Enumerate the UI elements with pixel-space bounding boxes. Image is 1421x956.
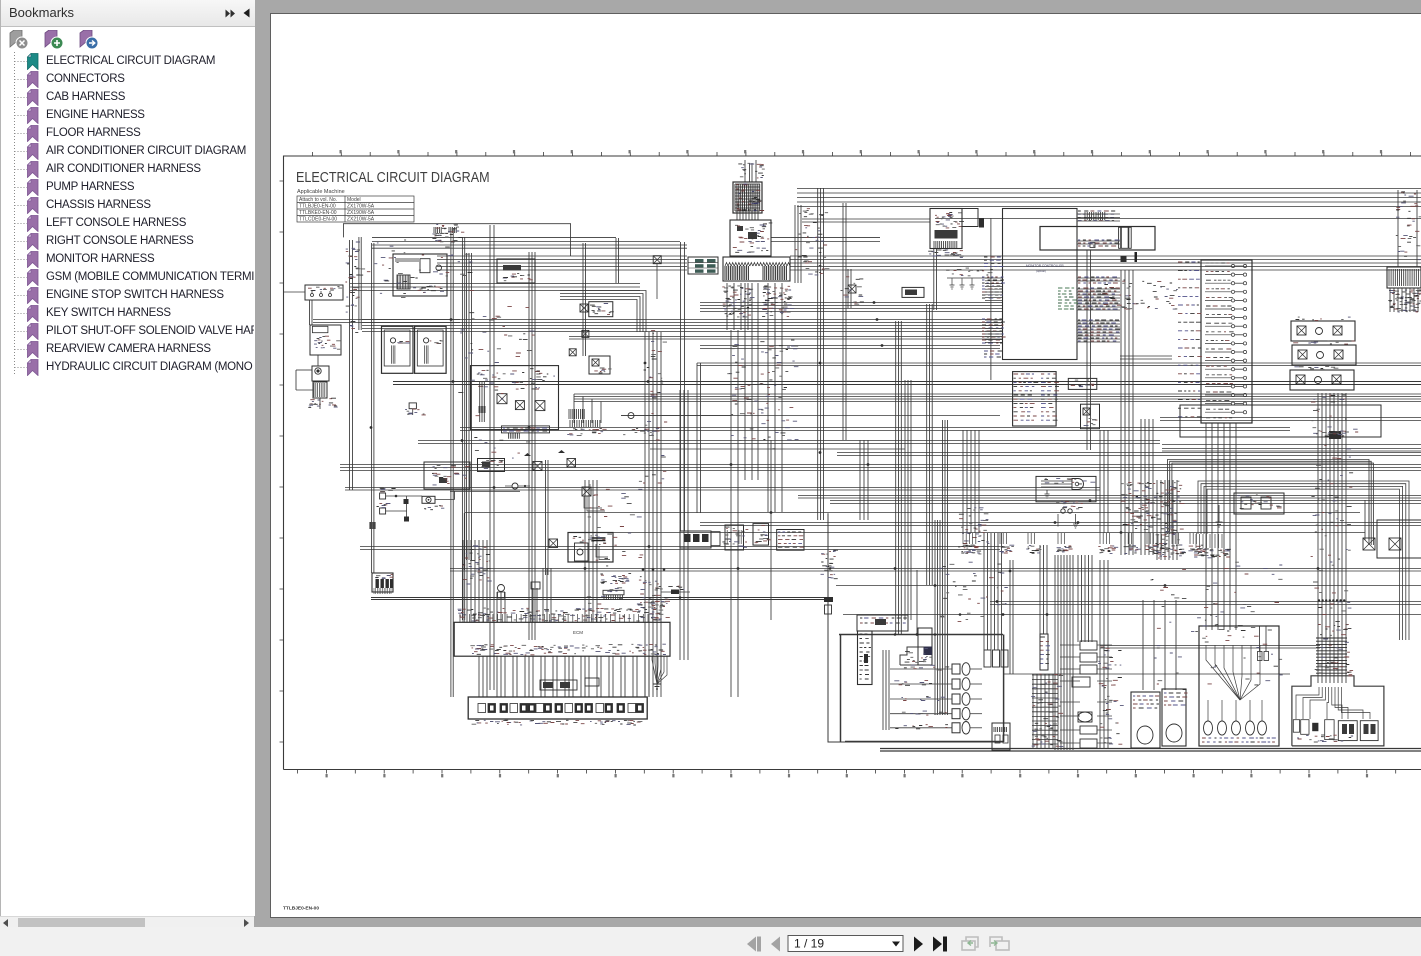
ruler numerals xyxy=(326,774,328,777)
fan symbol xyxy=(628,413,634,419)
wire bus mid xyxy=(313,320,460,323)
ladder rungs right bundle xyxy=(1316,638,1347,673)
vertical small groups xyxy=(860,440,868,520)
solenoid SV4 xyxy=(952,709,960,719)
solenoid SV2 xyxy=(952,679,960,689)
ECM bottom stubs and bundles xyxy=(479,656,649,697)
small relay cluster mid-right xyxy=(848,285,856,293)
ruler tick marks xyxy=(280,152,1411,774)
left of fusebox specks xyxy=(1102,281,1174,309)
fuel sensor box xyxy=(478,459,505,472)
relay bank cluster xyxy=(680,531,711,548)
wire routing upper-left xyxy=(343,223,571,225)
svg-text:TTLBJE0-EN-00: TTLBJE0-EN-00 xyxy=(283,906,319,912)
fuse row 5 xyxy=(1231,299,1234,302)
fuse row 7 xyxy=(1231,316,1234,319)
wire pair xyxy=(418,441,1160,444)
narrow tall box xyxy=(1040,634,1048,670)
wire pair mid3 xyxy=(700,346,1000,349)
green pin text rows xyxy=(1058,288,1078,309)
vertical single xyxy=(990,218,992,380)
dark connector stack right xyxy=(824,597,833,602)
label strip xyxy=(502,426,550,433)
ECM top pin stubs xyxy=(460,614,653,622)
ECM right fan wires xyxy=(652,656,657,684)
radio box xyxy=(393,254,447,296)
travel alarm box xyxy=(1131,692,1160,748)
vertical group right-mid xyxy=(1040,545,1047,634)
pump group label box xyxy=(857,615,908,631)
diode ladder bundle xyxy=(1033,674,1053,748)
battery wire specks xyxy=(953,251,963,253)
vertical to ECM xyxy=(585,480,597,622)
relay logic box right-mid xyxy=(1180,405,1381,437)
relay box 2 xyxy=(1292,345,1356,365)
wire bundle lower mid xyxy=(574,394,1421,402)
vertical group far right upper xyxy=(1121,270,1133,555)
fuse row 6 xyxy=(1231,307,1234,310)
fuse row 11 xyxy=(1231,350,1234,353)
wire bus center xyxy=(697,363,1421,366)
junction box above xyxy=(424,462,470,489)
corner verticals upper xyxy=(616,238,619,283)
wire pair mid2 xyxy=(569,337,1002,340)
connector comb teeth left xyxy=(725,266,748,280)
relay K3 xyxy=(535,401,545,411)
vertical pair mid xyxy=(546,460,549,575)
small motor symbol xyxy=(512,483,518,489)
solenoid SV3 xyxy=(952,694,960,704)
lower-left hatch box xyxy=(313,382,327,398)
solenoid SV5 xyxy=(952,723,960,733)
relay K2 xyxy=(515,401,524,410)
connector pair above pilot box xyxy=(1258,652,1263,661)
radio inner box xyxy=(420,259,430,273)
option box right xyxy=(1068,378,1097,389)
wire bundle with corners xyxy=(560,291,646,333)
antenna box xyxy=(1036,476,1096,501)
svg-text:Attach to vol. No.: Attach to vol. No. xyxy=(299,197,337,203)
monitor pin stubs xyxy=(1077,213,1120,215)
wire pair box top xyxy=(798,496,1421,499)
wire pair below xyxy=(1162,444,1421,446)
fuse row 13 xyxy=(1231,368,1234,371)
vertical bundle to pump box xyxy=(935,520,948,715)
relay K1 xyxy=(497,394,507,404)
wire pair right2 xyxy=(700,523,1421,526)
vertical bundle right-mid upper xyxy=(963,430,979,533)
fan tree wires xyxy=(1206,645,1240,700)
switch SW2 xyxy=(380,508,386,514)
connector labels below xyxy=(477,720,640,724)
pilot box connectors xyxy=(1293,720,1299,733)
connector dangles on long wire xyxy=(962,533,964,544)
svg-text:TTLCDE0-EN-00: TTLCDE0-EN-00 xyxy=(299,217,337,223)
pump box bottom bold wire xyxy=(845,741,1003,743)
wire bus main top xyxy=(437,256,687,270)
mid small boxes between ECM and connectors xyxy=(540,680,577,690)
wire bus bottom main xyxy=(450,569,1421,572)
bold bottom right wire xyxy=(880,749,1421,752)
vertical bundle mid xyxy=(645,332,661,697)
wire bus upper-left xyxy=(372,236,616,238)
U-bundle wires 2 xyxy=(1198,481,1409,640)
vertical shorts xyxy=(848,269,851,308)
sub-box in option box xyxy=(1119,227,1132,248)
bookmark toolbar icons xyxy=(9,30,119,50)
fusible link box xyxy=(962,209,978,227)
vertical dense bundle right xyxy=(1055,555,1073,750)
monitor left pin labels xyxy=(990,256,994,258)
bold wire pair lower-left xyxy=(371,598,832,600)
svg-text:Model: Model xyxy=(347,197,361,203)
vertical far right top xyxy=(1398,190,1417,267)
wire segment xyxy=(1003,673,1290,675)
wire single right xyxy=(613,532,1365,534)
relay far right 2 xyxy=(1389,538,1401,550)
fuse row 16 xyxy=(1231,393,1234,396)
vertical pair monitor right xyxy=(1087,250,1091,450)
schematic border frame xyxy=(284,156,1421,770)
ECM engine control module xyxy=(454,622,670,656)
bottom toolbar xyxy=(0,927,1421,956)
wire pair xyxy=(460,428,1290,431)
wire pair fusebox left xyxy=(1120,356,1172,359)
svg-text:ZX190W-5A: ZX190W-5A xyxy=(347,210,375,216)
fuse row 15 xyxy=(1231,385,1234,388)
corner wires down xyxy=(573,394,575,423)
relay K6 xyxy=(582,487,591,496)
small box under xyxy=(409,403,416,409)
wire right xyxy=(1100,646,1320,649)
relay R4 xyxy=(653,256,661,264)
pump bottom box xyxy=(992,723,1010,750)
fuse row 14 xyxy=(1231,376,1234,379)
dark connector marks xyxy=(1135,252,1138,262)
lower-left component small xyxy=(312,366,329,381)
wire long right xyxy=(935,218,1421,220)
wire single bottom right xyxy=(836,585,1421,587)
wide option box xyxy=(1040,227,1155,251)
tiny connector marks above frame entry xyxy=(434,227,441,233)
24V resistor tall box xyxy=(858,631,873,685)
fuse row 9 xyxy=(1231,333,1234,336)
vertical wires left xyxy=(350,240,353,490)
wire pair bottom right xyxy=(990,602,1421,605)
flasher unit box xyxy=(568,533,613,563)
wire drop from bus to ECM area xyxy=(463,513,465,570)
connector comb teeth right xyxy=(763,266,786,280)
wire single long xyxy=(465,512,1360,514)
fuse row 8 xyxy=(1231,325,1234,328)
fuse row 3 xyxy=(1231,282,1234,285)
svg-text:TTLBJE0-EN-00: TTLBJE0-EN-00 xyxy=(299,204,336,210)
ground fan cluster xyxy=(947,277,992,279)
switch SW1 xyxy=(380,493,386,499)
wire bus upper-left right segment xyxy=(771,237,880,241)
relay box 3 xyxy=(1290,370,1354,390)
right edge connector comb xyxy=(1387,267,1421,288)
document pane background xyxy=(254,0,1421,927)
tiny connector on wire xyxy=(370,522,376,529)
relay far right 1 xyxy=(1363,538,1375,550)
bank teeth row xyxy=(725,263,790,267)
wire pair right-mid xyxy=(1162,449,1421,452)
rearview camera box xyxy=(1234,493,1284,514)
right mid specks field xyxy=(1121,482,1185,530)
wire bus dark pair xyxy=(393,382,1421,385)
wire long bottom xyxy=(843,614,1421,616)
pump feed bundle xyxy=(883,650,889,730)
specks near top right verticals xyxy=(1396,192,1419,252)
horn box xyxy=(305,285,343,300)
cab harness junction box xyxy=(471,366,559,430)
ECM top pin specks xyxy=(459,608,659,620)
vertical pair xyxy=(583,243,586,356)
monitor controller box U-MC xyxy=(1003,209,1078,360)
left stub wires xyxy=(296,369,312,371)
sensor box above ECM xyxy=(531,582,540,589)
washer motor box xyxy=(310,325,341,355)
ECM bottom pin specks xyxy=(472,645,665,655)
wire single mid xyxy=(650,448,905,450)
fuse row 4 xyxy=(1231,290,1234,293)
sensor bar above ECM right xyxy=(603,590,624,595)
junction box below connector block xyxy=(730,220,771,256)
wire label specks under bank xyxy=(722,287,751,315)
junction dots xyxy=(450,318,453,321)
vertical top right feeds xyxy=(795,205,801,283)
junction dot row xyxy=(1318,599,1320,601)
solenoid SV1 xyxy=(952,664,960,674)
vertical wires center-left xyxy=(451,228,453,697)
battery box xyxy=(930,209,962,249)
U-bundle wires 1 xyxy=(1168,460,1370,546)
connector row box xyxy=(468,697,647,719)
wire bus to monitor controller xyxy=(700,303,1002,312)
title text xyxy=(296,170,490,186)
pilot box fan wires xyxy=(1296,687,1319,719)
component box mid xyxy=(589,356,610,374)
vertical group solenoid feeds xyxy=(984,533,1002,650)
fuel pump box xyxy=(1162,689,1186,746)
notched pilot box xyxy=(1292,676,1384,746)
GSM antenna box xyxy=(497,259,535,283)
clock box xyxy=(902,287,924,297)
power outlet box 1 xyxy=(382,326,414,373)
fuse row 1 xyxy=(1231,264,1234,267)
vertical bundle in mid box xyxy=(480,381,485,422)
fuse row 10 xyxy=(1231,342,1234,345)
pump box top bold wire xyxy=(839,634,1003,636)
relay R3 xyxy=(569,349,576,356)
inline connector wire xyxy=(661,591,690,593)
wire bus left branch xyxy=(350,284,640,291)
connector comb box lower-left xyxy=(372,573,393,592)
radio inner connector hatch xyxy=(397,275,410,289)
fuse row 12 xyxy=(1231,359,1234,362)
svg-text:TTLBKE0-EN-00: TTLBKE0-EN-00 xyxy=(299,210,337,216)
monitor right pin rows xyxy=(1084,211,1109,221)
vertical pair lower xyxy=(697,363,701,513)
wire bus wide xyxy=(340,465,1421,471)
right column boxes xyxy=(1080,641,1097,650)
relay R2 xyxy=(582,330,589,337)
wide connector bank xyxy=(723,257,790,281)
wire pair far right xyxy=(1160,418,1421,421)
wiper light controller xyxy=(1013,372,1057,426)
bookmarks panel xyxy=(0,0,255,916)
specks under right comb xyxy=(1392,290,1421,312)
svg-text:1 / 19: 1 / 19 xyxy=(794,937,824,951)
specks mid field xyxy=(732,347,793,439)
connector block top-center xyxy=(733,182,762,213)
wire pair lower xyxy=(360,547,1000,550)
connector slots xyxy=(478,704,486,713)
fuse row 17 xyxy=(1231,402,1234,405)
pump box left bold edge xyxy=(840,635,842,742)
pump enclosure box left edge xyxy=(828,513,1004,742)
fuse box xyxy=(1201,260,1252,423)
speaker connector pair xyxy=(1061,509,1065,513)
wires from connector block to junction box xyxy=(737,209,758,220)
wires above connector block xyxy=(745,160,756,182)
bottom connector symbols xyxy=(1204,721,1213,735)
pump connector boxes xyxy=(984,650,991,667)
relay K4 xyxy=(533,462,542,471)
power outlet box 2 xyxy=(415,326,447,373)
vertical big ladder bundle xyxy=(1318,393,1346,683)
relay K7 xyxy=(549,539,558,548)
twig wires right cluster xyxy=(1060,644,1080,646)
relay K5 xyxy=(567,459,576,468)
left component connecting wires xyxy=(310,300,313,325)
junction dots on bus xyxy=(642,568,645,571)
sensor oval above ECM xyxy=(498,585,505,592)
vertical tree to bottom boxes xyxy=(1206,423,1236,630)
svg-text:ZX210W-5A: ZX210W-5A xyxy=(347,217,375,223)
big connector fan box xyxy=(1199,626,1279,746)
wire pair xyxy=(345,488,1100,491)
ground symbol xyxy=(1216,505,1223,527)
vertical bundle to ECM left xyxy=(463,540,487,622)
pump box right bold wire xyxy=(1003,635,1005,743)
wire pair right xyxy=(837,453,1421,456)
horn relay xyxy=(422,496,435,503)
bottom-left comb cluster xyxy=(569,409,584,419)
wire single xyxy=(621,415,1000,417)
fuse row 2 xyxy=(1231,273,1234,276)
step amp box xyxy=(900,647,932,665)
panel horizontal scrollbar xyxy=(0,916,254,929)
vertical mid-right group xyxy=(896,321,902,634)
vertical bundle below bank xyxy=(727,283,748,330)
wire label ticks on left verticals xyxy=(345,251,359,328)
relay with diode cluster xyxy=(580,304,588,312)
connector dangles below wire xyxy=(1157,534,1159,548)
relay box right2 xyxy=(1081,404,1100,429)
vertical battery down xyxy=(934,248,937,310)
wire pair battery feed xyxy=(802,219,930,222)
white PDF page xyxy=(270,13,1421,918)
vertical long center xyxy=(490,225,494,690)
fuse row 18 xyxy=(1231,411,1234,414)
wire pair right xyxy=(830,501,1421,504)
wire bus top-right xyxy=(797,189,1421,207)
teal connector table xyxy=(688,257,718,274)
svg-text:ZX170W-5A: ZX170W-5A xyxy=(347,204,375,210)
fuse labels xyxy=(1178,262,1202,417)
box around far right relays xyxy=(1377,520,1421,558)
relay box 1 xyxy=(1291,321,1355,341)
